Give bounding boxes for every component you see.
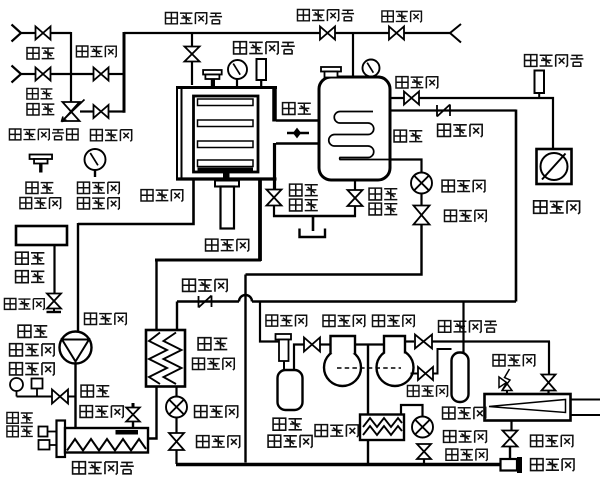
label 膨胀阀 exchanger (195, 406, 207, 418)
valve heater vent valve (放气阀) (132, 422, 134, 429)
pump circulation pump (循环泵) (60, 332, 92, 364)
wire exchanger oil out to heater (148, 387, 157, 439)
label 抽空阀 (396, 77, 408, 88)
valve condenser inlet valve (542, 375, 556, 383)
valve trap inlet valve (阱入口阀) (320, 27, 328, 40)
valve defrost valve (除霜阀) (389, 27, 397, 40)
wire evacuation line to pump (390, 98, 553, 150)
label 电磁阀 (90, 130, 102, 141)
valve expansion valve trap (膨胀阀) (411, 173, 432, 194)
label 电磁阀 condenser (446, 449, 458, 460)
label 电磁阀 trap (445, 210, 457, 221)
label 无菌 (27, 88, 38, 99)
wire oil separator stem (462, 302, 464, 353)
wire trap feed drop x353 (352, 33, 354, 78)
sensor temp controller 1 (39, 427, 48, 437)
wire long drop x245.5 (244, 275, 246, 463)
label 分离器 (268, 435, 281, 447)
valve solenoid trap (电磁阀) (414, 206, 430, 216)
label 真空测头 (234, 42, 247, 54)
label 低压级 (323, 315, 335, 326)
label 出阀 (chamber) (290, 199, 302, 211)
shelf 1 (198, 99, 254, 106)
valve leak adjusting valve (漏气调节阀) (63, 102, 80, 112)
valve vent valve (放气阀) (94, 68, 102, 81)
fitting chamber relief cap (203, 70, 222, 75)
label 漏气调节阀 (9, 129, 20, 140)
valve chamber drain valve (箱排出阀) (267, 190, 282, 198)
wire discharge line (405, 340, 414, 342)
wire condenser feed (548, 342, 550, 375)
wire chamber oil return right (258, 178, 262, 261)
label 过滤器 outlet (531, 459, 543, 471)
label 安全阀 condenser (493, 355, 505, 366)
shelf 4 (198, 160, 254, 167)
hydraulic cylinder body (221, 187, 235, 229)
filter outlet filter (过滤器) (501, 459, 518, 471)
label 压力表 oil (10, 344, 23, 356)
exchanger plate heat exchanger (板式换热器) (146, 330, 185, 387)
wire exchanger refrigerant out (175, 387, 177, 397)
wire vertical riser x124 (123, 32, 126, 113)
fitting trap relief cap (321, 67, 341, 72)
wire oil return line (411, 373, 419, 375)
label 阱排 (369, 188, 381, 200)
label 压力表 (78, 198, 90, 209)
valve liquid outlet valve (出液阀) (503, 431, 518, 439)
label 板式 (198, 338, 211, 350)
label 箱排 (290, 184, 302, 196)
label 出液阀 (531, 435, 543, 447)
legend contact pressure gauge symbol (85, 149, 106, 170)
heater electric heater box (电加热器) (65, 428, 148, 453)
label 换热器 (193, 358, 205, 369)
shaft dashed line (337, 367, 401, 369)
duct main valve passage (276, 119, 320, 122)
coil inside cold trap (329, 112, 389, 160)
label 膨胀 (16, 252, 29, 264)
label 放油阀 (4, 298, 15, 309)
condenser (冷凝器) (485, 394, 571, 421)
wire condenser outlet (510, 421, 512, 432)
label 高压级 (373, 315, 385, 326)
heater flange (57, 421, 66, 458)
wire vent fishtail end (450, 24, 461, 43)
label 过滤器 mid (266, 315, 278, 326)
valve solenoid valve (电磁阀) (94, 105, 102, 118)
valve evacuation valve (抽空阀) (404, 92, 412, 105)
shelf 2 (198, 120, 254, 127)
pump vacuum pump (537, 149, 572, 184)
valve oil drain valve (放油阀) (47, 294, 61, 302)
wire top header y33 (124, 32, 450, 34)
valve expansion valve exchanger (膨胀阀) (166, 397, 187, 418)
label 冻干箱 (141, 190, 153, 201)
label 容器 (16, 271, 29, 283)
label 放气阀 heater (80, 406, 92, 418)
valve suction valve (304, 338, 312, 352)
label 油分离器 (439, 321, 451, 333)
chamber inner shelf box (194, 96, 259, 172)
legend vacuum relief valve symbol (30, 155, 53, 160)
chamber freeze-dryer box (outer) (176, 86, 277, 89)
flow arrow in duct (287, 132, 309, 134)
drain funnel (312, 216, 315, 231)
label 电加热器 (73, 462, 86, 474)
valve solenoid condenser (电磁阀) (417, 444, 431, 452)
vessel cold trap (319, 77, 390, 180)
piston stem (223, 173, 230, 181)
label 中冷器 (315, 425, 327, 437)
wire sterile air inlet line (12, 66, 22, 83)
label 箱入口阀 (165, 13, 177, 24)
check valve right (单向阀) (436, 105, 438, 117)
wire trap drain (354, 180, 356, 191)
label 液压缸 (206, 239, 218, 251)
filter dryer (过滤器) (276, 334, 292, 340)
valve discharge valve (415, 335, 424, 349)
label 放气阀 (76, 46, 87, 57)
wire right riser x516 (515, 110, 518, 302)
valve safety valve (安全阀) (506, 391, 508, 395)
fitting chamber vacuum probe (257, 59, 267, 80)
wire separator outlet (294, 345, 304, 371)
fitting chamber pressure gauge (228, 60, 247, 79)
label 阱入口阀 (297, 10, 309, 21)
label 继电器 (10, 363, 23, 375)
valve sterile air inlet valve (36, 68, 44, 81)
label 真空泵 (534, 201, 547, 214)
label 安全阀 (20, 198, 32, 209)
wire trap refrigerant return (246, 225, 422, 275)
compressor low stage (低压级) (324, 349, 361, 386)
valve expansion valve condenser (膨胀阀) (412, 417, 433, 438)
heater thermostat rod (116, 430, 139, 435)
label 单向阀 mid (183, 279, 196, 291)
compressor high stage (高压级) (377, 349, 414, 386)
wire gauge branch (17, 396, 76, 398)
label 真空 (26, 182, 38, 193)
shelf press plate (198, 168, 254, 173)
valve hand valve (手阀) (52, 390, 60, 404)
wire leak-adjust row (80, 110, 94, 112)
wire chamber inlet drop x192 (191, 33, 193, 85)
fitting vacuum probe right (535, 71, 545, 94)
wire suction header y301 (177, 300, 239, 303)
vessel expansion tank (膨胀容器) (16, 226, 67, 245)
label 除霜阀 (382, 11, 393, 22)
label 冷凝器 (443, 407, 455, 419)
valve trap drain valve (阱排出阀) (348, 190, 363, 198)
label 循环泵 (85, 313, 97, 324)
wire interstage line (355, 343, 384, 345)
label 膨胀阀 trap (442, 180, 454, 192)
wire bottom liquid header (176, 463, 501, 466)
wire intercooler drop (367, 345, 369, 416)
wire nitrogen inlet line (12, 25, 22, 42)
vessel vapor-liquid separator (汽液分离器) (278, 370, 303, 410)
vessel oil separator (452, 353, 469, 403)
label 硅油 (18, 325, 31, 337)
label 手阀 (81, 385, 93, 397)
wire coil outlet to expansion valve (389, 160, 422, 173)
gauge silicone oil gauge (10, 378, 23, 391)
wire drain header (273, 215, 356, 218)
shelf 3 (198, 141, 254, 148)
label 主阀 (283, 103, 295, 115)
label 回油阀 (407, 385, 419, 396)
fitting trap pressure gauge (363, 60, 380, 77)
wire cooling water stubs (571, 399, 600, 401)
label 氮气 (27, 48, 39, 59)
label 单向阀 right (438, 124, 451, 136)
label 真空测头 right (525, 55, 537, 67)
valve chamber inlet valve (箱入口阀) (185, 47, 200, 55)
valve solenoid exchanger (电磁阀) (169, 433, 184, 442)
label 电磁阀 exchanger (197, 436, 209, 448)
intercooler (中冷器) (360, 415, 404, 441)
wire filter feed (260, 302, 279, 342)
wire exchanger inputs (176, 302, 178, 331)
valve nitrogen inlet valve (36, 27, 44, 40)
valve oil return valve (回油阀) (418, 367, 426, 380)
label 出阀 (trap) (369, 203, 381, 215)
label 膨胀阀 condenser (444, 431, 456, 443)
hydraulic cylinder flange (215, 181, 239, 187)
check valve mid (单向阀) (198, 296, 200, 308)
label 汽液 (273, 418, 286, 430)
relay silicone oil relay (32, 379, 43, 389)
label 安全 (7, 412, 18, 423)
label 冷阱 (394, 130, 406, 142)
wire vertical riser x71 (70, 32, 72, 104)
wire condenser second pass (401, 405, 423, 417)
label 温控 (7, 426, 18, 437)
label 电接点 (78, 182, 90, 193)
wire check-valve line y110 (390, 109, 516, 111)
sensor temp controller 2 (39, 440, 50, 450)
heater resistor zigzag (67, 439, 146, 451)
wire chamber oil drain left (78, 178, 194, 224)
label 空气 (27, 104, 39, 115)
